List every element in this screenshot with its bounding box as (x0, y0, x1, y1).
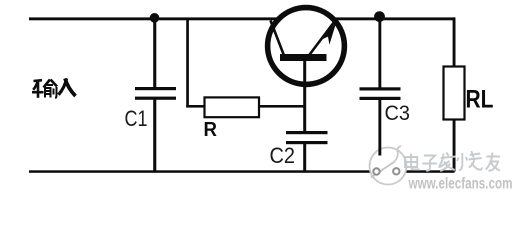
node junction dot at C3 tap (374, 11, 385, 22)
svg-text:C1: C1 (125, 106, 148, 131)
wire RL bottom lead (453, 119, 456, 172)
capacitor C3 (360, 87, 401, 100)
wire top rail right segment (334, 17, 455, 20)
capacitor C1 (135, 87, 176, 100)
wire C3 bottom lead (378, 100, 381, 156)
node junction dot at C1 tap (150, 13, 160, 23)
wire RL top lead (453, 17, 456, 67)
transistor Q1 collector line (271, 21, 285, 56)
transistor Q1 emitter arrowhead (321, 22, 337, 45)
transistor Q1 base bar (280, 54, 327, 61)
label 输入 (input), hand-drawn glyphs (32, 79, 76, 98)
wire top rail left segment (29, 17, 278, 20)
入 (59, 79, 67, 95)
wire bottom rail (29, 170, 455, 173)
子 (422, 156, 437, 171)
svg-text:RL: RL (466, 86, 494, 114)
wire C1 top lead (153, 19, 156, 88)
wire R to transistor base (259, 105, 306, 108)
svg-text:C2: C2 (270, 143, 296, 168)
wire R branch vertical from top rail (186, 19, 189, 108)
transistor Q1 emitter line (309, 20, 337, 57)
电 (405, 154, 420, 170)
svg-text:C3: C3 (385, 102, 411, 125)
transistor Q1 circle (268, 8, 345, 85)
watermark logo (elecfans) (370, 146, 407, 185)
输 left radical 车 (34, 79, 43, 82)
wire Q1 base lead down (303, 61, 306, 132)
svg-text:www.elecfans.com: www.elecfans.com (408, 176, 513, 193)
发 (439, 153, 456, 172)
resistor RL (444, 67, 465, 120)
resistor R (205, 97, 260, 117)
watermark text 电子发烧友, hand-drawn glyphs (405, 151, 500, 171)
svg-text:R: R (204, 119, 218, 141)
wire R branch horizontal to resistor (186, 105, 205, 108)
wire C2 bottom lead (303, 144, 306, 171)
wire C1 bottom lead (153, 100, 156, 172)
烧 (457, 151, 482, 171)
wire C3 top lead (378, 19, 381, 88)
输 right part 俞 (44, 80, 58, 88)
capacitor C2 (286, 131, 328, 144)
友 (486, 153, 500, 171)
